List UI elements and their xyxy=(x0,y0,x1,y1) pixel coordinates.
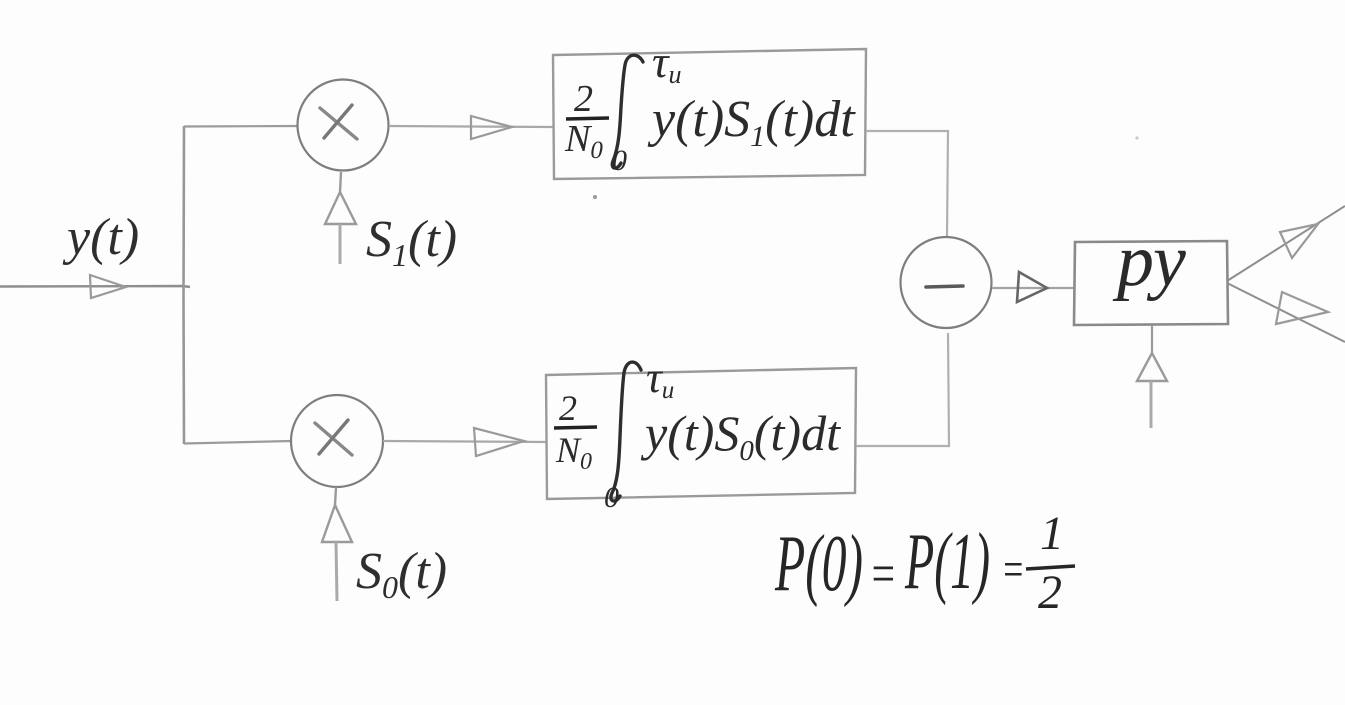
wire output upper xyxy=(1227,206,1345,281)
svg-text:=: = xyxy=(1001,541,1025,597)
wire integrator 1 to subtractor xyxy=(866,131,948,236)
svg-text:ру: ру xyxy=(1112,220,1186,302)
arrow S0 input xyxy=(335,487,336,505)
wire top branch xyxy=(184,125,297,128)
label P(0)=P(1)=1/2 xyxy=(774,507,1075,619)
wire bottom branch xyxy=(184,441,291,444)
svg-text:P(0): P(0) xyxy=(774,520,863,608)
wire vertical bus xyxy=(182,126,185,444)
formula integrator 1 xyxy=(564,36,856,177)
wire M0 to integrator 0 xyxy=(383,441,546,442)
decision box РУ xyxy=(1074,241,1228,325)
arrowhead to integrator 1 xyxy=(471,116,512,139)
wire integrator 0 to subtractor xyxy=(856,333,949,446)
speck xyxy=(593,195,597,199)
multiplier M1 xyxy=(298,80,389,171)
svg-text:y(t): y(t) xyxy=(62,209,139,266)
svg-text:2: 2 xyxy=(574,78,593,120)
arrowhead output upper xyxy=(1280,224,1318,258)
wire M1 to integrator 1 xyxy=(389,126,553,127)
svg-text:2: 2 xyxy=(1038,566,1062,619)
wire output lower xyxy=(1227,283,1345,342)
arrow decision clock input xyxy=(1151,325,1153,353)
wire subtractor to decision xyxy=(992,287,1075,289)
wire input y(t) xyxy=(0,286,190,287)
svg-text:0: 0 xyxy=(612,144,627,177)
svg-text:2: 2 xyxy=(559,388,577,428)
svg-text:0: 0 xyxy=(604,481,619,514)
svg-text:S0(t): S0(t) xyxy=(356,543,447,605)
svg-text:P(1): P(1) xyxy=(904,518,990,606)
integrator box 1 xyxy=(553,49,866,179)
formula integrator 0 xyxy=(554,353,841,514)
svg-text:1: 1 xyxy=(1040,507,1064,560)
svg-text:=: = xyxy=(869,543,897,605)
arrowhead to decision xyxy=(1017,272,1047,302)
arrowhead output lower xyxy=(1276,292,1328,324)
integrator box 0 xyxy=(546,368,856,499)
arrowhead to integrator 0 xyxy=(474,428,524,456)
svg-text:S1(t): S1(t) xyxy=(366,211,457,273)
speck xyxy=(1135,136,1138,139)
arrow S1 input xyxy=(340,172,341,192)
multiplier M0 xyxy=(291,395,383,487)
arrowhead input xyxy=(90,275,126,298)
subtractor xyxy=(901,237,992,328)
